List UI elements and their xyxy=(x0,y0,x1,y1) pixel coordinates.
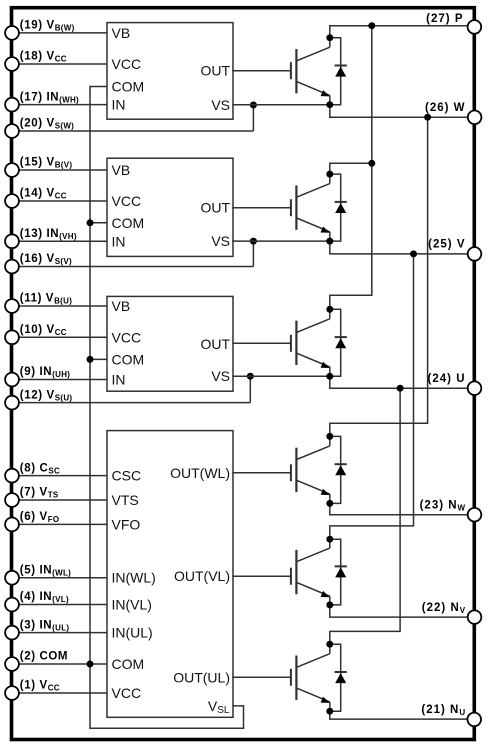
wire U output: U3 VS line, emitter to pin (24) U xyxy=(232,376,468,388)
wire pin (17) IN(WH) lead xyxy=(12,104,107,106)
svg-text:VS: VS xyxy=(211,97,230,113)
terminal pin (1) VCC xyxy=(5,686,19,700)
wire gate drive OUT to Q2 xyxy=(232,207,290,209)
terminal pin (13) IN(VH) xyxy=(5,234,19,248)
junction V line / V bus xyxy=(410,250,417,257)
wire NW output: WL emitter to pin (23) xyxy=(330,503,468,514)
svg-text:(2) COM: (2) COM xyxy=(20,651,68,663)
wire NU output: UL emitter to pin (21) xyxy=(330,711,467,719)
terminal pin (11) VB(U) xyxy=(5,299,19,313)
svg-text:VCC: VCC xyxy=(112,56,142,72)
wire W bus down to low-side WL collector xyxy=(330,117,428,436)
wire pin (15) VB(V) lead xyxy=(12,169,107,171)
svg-text:(25) V: (25) V xyxy=(428,239,465,251)
junction P rail / P bus xyxy=(368,22,375,29)
terminal pin (9) IN(UH) xyxy=(5,373,19,387)
junction COM bus at pin (2) COM wire xyxy=(87,661,94,668)
wire NV output: VL emitter to pin (22) xyxy=(330,605,468,617)
diode D4 freewheeling xyxy=(330,436,347,503)
driver IC U1 W-phase high-side driver box xyxy=(107,23,233,120)
wire gate drive OUT to Q1 xyxy=(232,70,290,72)
terminal pin (26) W xyxy=(468,111,482,125)
svg-text:VB: VB xyxy=(112,25,131,41)
wire pin (20) VS(W) lead xyxy=(12,130,253,132)
wire gate drive OUT to Q6 xyxy=(232,676,290,678)
svg-text:IN: IN xyxy=(112,372,126,388)
node Q5 collector xyxy=(326,536,333,543)
svg-text:IN: IN xyxy=(112,97,126,113)
terminal pin (25) V xyxy=(468,247,482,261)
wire pin (18) VCC lead xyxy=(12,63,107,65)
node Q4 emitter xyxy=(326,500,333,507)
svg-text:VFO: VFO xyxy=(112,516,141,532)
wire pin (3) IN(UL) lead xyxy=(12,632,107,634)
wire pin (1) VCC lead xyxy=(12,692,107,694)
svg-text:IN: IN xyxy=(112,233,126,249)
svg-text:VB: VB xyxy=(112,162,131,178)
terminal pin (18) VCC xyxy=(5,57,19,71)
wire pin (12) VS(U) lead xyxy=(12,402,250,404)
wire pin (4) IN(VL) lead xyxy=(12,604,107,606)
wire W output: U1 VS line, emitter to pin (26) W xyxy=(232,105,468,118)
svg-text:(26) W: (26) W xyxy=(425,102,466,114)
diode D6 freewheeling xyxy=(330,644,347,711)
node Q5 emitter xyxy=(326,601,333,608)
svg-text:(24) U: (24) U xyxy=(428,373,466,385)
terminal pin (7) VTS xyxy=(5,493,19,507)
transistor Q5 VL low-side IGBT xyxy=(291,539,330,605)
terminal pin (27) P xyxy=(468,20,482,34)
terminal pin (21) NU xyxy=(467,713,481,727)
wire pin (2) COM lead xyxy=(12,663,107,665)
driver IC U2 V-phase high-side driver box xyxy=(107,158,233,256)
terminal pin (20) VS(W) xyxy=(5,124,19,138)
svg-text:COM: COM xyxy=(112,351,145,367)
terminal pin (16) VS(V) xyxy=(5,260,19,274)
wire V bus down to low-side VL collector xyxy=(330,254,414,539)
svg-text:VCC: VCC xyxy=(112,685,142,701)
wire U bus down to low-side UL collector xyxy=(330,388,400,644)
terminal pin (3) IN(UL) xyxy=(5,626,19,640)
svg-text:VCC: VCC xyxy=(112,329,142,345)
wire pin (14) VCC lead xyxy=(12,200,107,202)
svg-text:IN(UL): IN(UL) xyxy=(112,625,153,641)
wire pin (7) VTS lead xyxy=(12,499,107,501)
svg-text:(27) P: (27) P xyxy=(426,13,463,25)
wire gate drive OUT to Q4 xyxy=(232,472,290,474)
node Q2 emitter xyxy=(326,238,333,245)
node Q2 collector xyxy=(326,171,333,178)
terminal pin (15) VB(V) xyxy=(5,163,19,177)
terminal pin (2) COM xyxy=(5,657,19,671)
wire pin (10) VCC lead xyxy=(12,336,107,338)
terminal pin (22) NV xyxy=(468,610,482,624)
wire gate drive OUT to Q3 xyxy=(232,342,290,344)
wire pin (8) CSC lead xyxy=(12,475,107,477)
svg-text:VTS: VTS xyxy=(112,492,139,508)
wire pin (9) IN(UH) lead xyxy=(12,379,107,381)
svg-text:OUT: OUT xyxy=(200,336,230,352)
terminal pin (6) VFO xyxy=(5,518,19,532)
node Q4 collector xyxy=(326,433,333,440)
junction W line / W bus xyxy=(424,114,431,121)
wire V output: U2 VS line, emitter to pin (25) V xyxy=(232,241,468,254)
junction U line / U bus xyxy=(397,385,404,392)
svg-text:(22) NV: (22) NV xyxy=(422,602,466,615)
driver IC U4 low-side driver box xyxy=(107,431,233,718)
svg-text:COM: COM xyxy=(112,656,145,672)
wire pin (5) IN(WL) lead xyxy=(12,577,107,579)
terminal pin (23) NW xyxy=(468,508,482,522)
node Q1 collector xyxy=(326,34,333,41)
driver IC U3 U-phase high-side driver box xyxy=(107,296,233,391)
wire VS(U) sense: junction on U3 VS line down to pin (12) xyxy=(249,376,251,402)
wire P rail from W-phase collector to pin (27) xyxy=(330,26,468,38)
svg-text:COM: COM xyxy=(112,79,145,95)
terminal pin (12) VS(U) xyxy=(5,396,19,410)
wire pin (16) VS(V) lead xyxy=(12,266,253,268)
transistor Q6 UL low-side IGBT xyxy=(291,644,330,711)
terminal pin (17) IN(WH) xyxy=(5,98,19,112)
svg-text:VS: VS xyxy=(211,233,230,249)
svg-text:IN(WL): IN(WL) xyxy=(112,570,156,586)
svg-text:OUT: OUT xyxy=(200,200,230,216)
terminal pin (10) VCC xyxy=(5,330,19,344)
diode D1 freewheeling xyxy=(330,38,347,105)
transistor Q3 U-phase high-side IGBT xyxy=(291,309,330,376)
terminal pin (8) CSC xyxy=(5,469,19,483)
wire pin (6) VFO lead xyxy=(12,523,107,525)
wire pin (13) IN(VH) lead xyxy=(12,240,107,242)
svg-text:OUT(VL): OUT(VL) xyxy=(174,568,230,584)
diode D3 freewheeling xyxy=(330,309,347,376)
junction V-phase collector on P bus xyxy=(368,160,375,167)
svg-text:OUT(UL): OUT(UL) xyxy=(173,669,230,685)
svg-text:OUT: OUT xyxy=(200,63,230,79)
wire P bus down to U-phase collector xyxy=(330,26,372,310)
svg-text:IN(VL): IN(VL) xyxy=(112,597,152,613)
terminal pin (19) VB(W) xyxy=(5,26,19,40)
junction COM bus to U2 COM stub xyxy=(90,222,107,224)
terminal pin (5) IN(WL) xyxy=(5,571,19,585)
svg-text:(21) NU: (21) NU xyxy=(421,704,465,717)
svg-text:VB: VB xyxy=(112,298,131,314)
terminal pin (4) IN(VL) xyxy=(5,598,19,612)
node Q6 emitter xyxy=(326,708,333,715)
wire gate drive OUT to Q5 xyxy=(232,575,290,577)
node Q6 collector xyxy=(326,641,333,648)
svg-text:VCC: VCC xyxy=(112,193,142,209)
svg-text:VS: VS xyxy=(211,368,230,384)
wire V-phase collector tee to P bus xyxy=(330,163,372,174)
wire pin (19) VB(W) lead xyxy=(12,32,107,34)
wire COM bus from U1 COM down and VSL return loop xyxy=(90,87,244,729)
transistor Q1 W-phase high-side IGBT xyxy=(291,38,330,105)
diode D5 freewheeling xyxy=(330,539,347,605)
node Q1 emitter xyxy=(326,101,333,108)
svg-text:CSC: CSC xyxy=(112,468,142,484)
wire VS(V) sense: junction on U2 VS line down to pin (16) xyxy=(252,241,254,266)
transistor Q2 V-phase high-side IGBT xyxy=(291,174,330,241)
svg-text:COM: COM xyxy=(112,215,145,231)
diode D2 freewheeling xyxy=(330,174,347,241)
junction COM bus to U3 COM stub xyxy=(90,358,107,360)
terminal pin (14) VCC xyxy=(5,194,19,208)
transistor Q4 WL low-side IGBT xyxy=(291,436,330,503)
node Q3 collector xyxy=(326,306,333,313)
wire VS(W) sense: junction on U1 VS line down to pin (20) xyxy=(252,105,254,131)
wire pin (11) VB(U) lead xyxy=(12,305,107,307)
terminal pin (24) U xyxy=(468,381,482,395)
node Q3 emitter xyxy=(326,373,333,380)
svg-text:OUT(WL): OUT(WL) xyxy=(170,465,230,481)
